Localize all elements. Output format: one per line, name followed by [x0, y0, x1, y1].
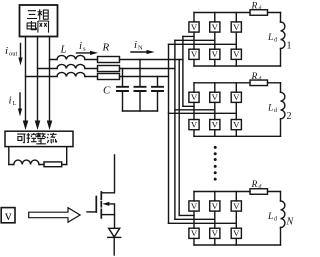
svg-text:i: i	[79, 40, 82, 52]
svg-text:i: i	[5, 45, 8, 57]
svg-text:V: V	[191, 119, 198, 129]
svg-text:v: v	[5, 208, 12, 223]
svg-text:V: V	[233, 49, 240, 59]
svg-text:d: d	[259, 184, 262, 190]
svg-text:d: d	[259, 6, 262, 12]
svg-text:C: C	[103, 85, 111, 97]
svg-text:d: d	[274, 108, 277, 114]
svg-text:V: V	[233, 92, 240, 102]
svg-text:V: V	[191, 92, 198, 102]
svg-text:R: R	[251, 72, 258, 82]
svg-text:L: L	[267, 33, 273, 43]
svg-text:N: N	[138, 45, 143, 52]
svg-text:V: V	[212, 119, 219, 129]
svg-text:N: N	[286, 217, 295, 228]
svg-text:V: V	[233, 22, 240, 32]
svg-text:V: V	[212, 22, 219, 32]
svg-text:V: V	[212, 92, 219, 102]
svg-text:R: R	[102, 42, 110, 54]
svg-text:R: R	[251, 2, 258, 12]
svg-text:i: i	[134, 39, 137, 51]
svg-text:L: L	[267, 212, 273, 222]
svg-text:V: V	[191, 22, 198, 32]
svg-text:d: d	[274, 38, 277, 44]
svg-text:s: s	[83, 46, 86, 53]
svg-text:R: R	[251, 180, 258, 190]
svg-text:V: V	[191, 228, 198, 238]
svg-text:V: V	[233, 201, 240, 211]
svg-text:V: V	[212, 49, 219, 59]
svg-text:d: d	[259, 76, 262, 82]
svg-text:V: V	[233, 119, 240, 129]
svg-text:V: V	[191, 201, 198, 211]
svg-text:V: V	[212, 201, 219, 211]
svg-text:L: L	[60, 44, 67, 56]
svg-text:V: V	[191, 49, 198, 59]
svg-text:i: i	[9, 95, 12, 107]
svg-text:1: 1	[287, 41, 292, 52]
svg-text:out: out	[9, 51, 18, 58]
svg-text:2: 2	[287, 111, 292, 122]
svg-text:V: V	[212, 228, 219, 238]
svg-text:L: L	[267, 103, 273, 113]
svg-text:d: d	[274, 217, 277, 223]
svg-text:V: V	[233, 228, 240, 238]
svg-text:L: L	[13, 100, 17, 107]
